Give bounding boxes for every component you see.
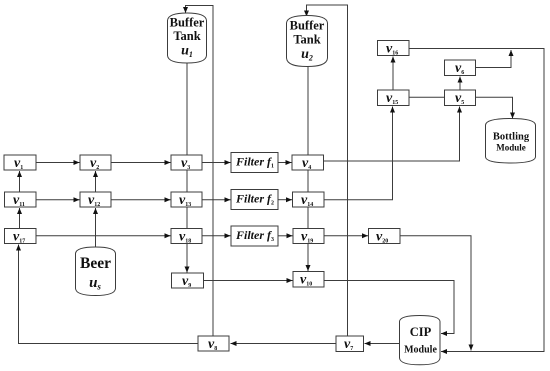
wire beer tank up into v12 <box>95 208 97 248</box>
wire filter f2 to v14 <box>278 199 292 201</box>
valve v6 <box>445 60 476 76</box>
svg-text:Filter f3: Filter f3 <box>235 228 274 243</box>
valve v19 <box>293 229 324 244</box>
valve v12 <box>80 192 111 207</box>
svg-text:Module: Module <box>404 345 437 356</box>
valve v8 <box>198 336 229 351</box>
wire v6 right up into v16 line <box>476 50 512 68</box>
valve v9 <box>172 273 204 288</box>
wire v10 right, down, into CIP right side <box>324 281 454 334</box>
valve v14 <box>293 192 325 207</box>
filter f2 box <box>231 190 278 210</box>
svg-text:Beer: Beer <box>80 255 111 272</box>
wire v15 to v5 <box>409 96 445 98</box>
valve v11 <box>5 192 37 207</box>
filter f3 box <box>231 226 278 246</box>
valve v7 <box>336 336 364 352</box>
wire v20 right, down into CIP return line <box>400 236 471 351</box>
wire v14 to v19 <box>307 207 309 229</box>
wire v4 to v14 <box>307 170 309 192</box>
wire v11 up into v1 <box>19 171 21 192</box>
wire v13 to v18 <box>186 207 188 229</box>
svg-text:Filter f1: Filter f1 <box>235 154 274 169</box>
valve v1 <box>4 155 36 170</box>
buffer tank u1 shape <box>168 13 207 63</box>
wire v2 to v3 <box>111 162 171 164</box>
wire v8 left, up into v17 <box>19 245 199 344</box>
wire v3 to filter f1 <box>202 162 231 164</box>
wire v7 left to v8 <box>231 343 337 345</box>
svg-text:Tank: Tank <box>293 33 320 47</box>
svg-text:Tank: Tank <box>173 29 200 43</box>
wire v12 up into v2 <box>95 171 97 192</box>
svg-text:Module: Module <box>496 143 526 153</box>
svg-text:Buffer: Buffer <box>290 19 325 33</box>
wire v5 up into v6 <box>459 77 461 91</box>
wire v18 down into v9 <box>186 244 188 273</box>
wire v17 to v18 <box>36 235 171 237</box>
valve v10 <box>293 272 324 288</box>
valve v13 <box>171 192 202 207</box>
wire v3 to v13 <box>186 170 188 192</box>
valve v15 <box>378 90 410 106</box>
svg-text:CIP: CIP <box>410 325 432 339</box>
svg-text:Buffer: Buffer <box>170 16 205 30</box>
svg-text:Bottling: Bottling <box>493 132 530 143</box>
wire v8 top to buffer tank u1 (up, left, down into tank) <box>186 6 214 337</box>
wire v5 right down into bottling module <box>476 97 513 118</box>
valve v5 <box>445 90 476 106</box>
bottling module shape <box>486 119 536 164</box>
wire v16 right to right edge down to CIP module <box>409 49 544 352</box>
wire v15 up into v16 <box>392 57 394 91</box>
wire v19 to v20 <box>324 235 368 237</box>
wire buffer tank u2 down to v4 <box>307 66 309 155</box>
filter f1 box <box>231 153 278 173</box>
wire v18 to filter f3 <box>202 235 231 237</box>
valve v2 <box>80 155 111 170</box>
valve v18 <box>171 229 202 244</box>
beer tank us shape <box>76 247 116 296</box>
svg-text:Filter f2: Filter f2 <box>235 192 274 207</box>
wire v1 to v2 <box>36 162 80 164</box>
wire buffer tank u1 down to v3 <box>186 62 188 155</box>
wire v9 to v10 <box>204 280 293 282</box>
valve v4 <box>292 155 324 170</box>
wire v17 up into v11 <box>19 208 21 229</box>
buffer tank u2 shape <box>287 16 328 67</box>
valve v17 <box>5 229 37 244</box>
wire v12 to v13 <box>111 199 171 201</box>
wire filter f3 to v19 <box>278 235 293 237</box>
valve v16 <box>378 41 410 56</box>
wire v7 top to buffer tank u2 (up, left, down into tank) <box>307 5 348 336</box>
wire filter f1 to v4 <box>278 162 292 164</box>
wire CIP left to v7 <box>365 343 400 345</box>
valve v3 <box>171 155 202 170</box>
wire v19 down into v10 <box>307 244 309 272</box>
wire v11 to v12 <box>36 199 80 201</box>
wire v4 right and up into v5 <box>324 107 460 162</box>
wire v14 right and up into v15 <box>324 107 393 200</box>
valve v20 <box>369 229 401 244</box>
wire v13 to filter f2 <box>202 199 231 201</box>
CIP module shape <box>400 316 441 365</box>
